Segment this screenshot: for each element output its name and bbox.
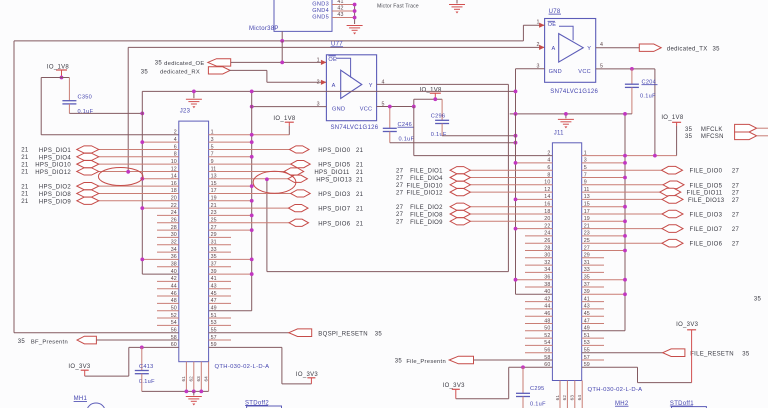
flag FILE_DIO10 to J11 pin 10 [396, 181, 552, 189]
svg-text:40: 40 [171, 269, 177, 275]
capacitor C204 0.1uF [631, 69, 633, 84]
flag MFCLK [735, 124, 757, 132]
junction IO_1V8 stem [433, 97, 437, 101]
capacitor C350 0.1uF [68, 78, 70, 101]
Mictor pin names GND3 GND4 GND5 [312, 2, 329, 21]
wire J23 pin 19 to right ground bus [209, 200, 252, 202]
svg-text:J23: J23 [180, 108, 191, 114]
capacitor C295 0.1uF [521, 365, 525, 369]
svg-text:64: 64 [203, 376, 208, 382]
svg-text:HPS_DIO6: HPS_DIO6 [318, 221, 350, 227]
wire J11 pin 23 to right ground bus [582, 235, 625, 237]
ground symbol on J23 ground rail [193, 91, 195, 98]
flag HPS_DIO1 to J23 pin 6 [21, 146, 179, 154]
svg-text:56: 56 [171, 328, 177, 334]
svg-text:OE: OE [548, 22, 557, 28]
wire GND pins to ground [354, 5, 356, 25]
svg-text:35: 35 [685, 134, 693, 140]
ground below J23 mounting pins [193, 391, 195, 395]
svg-text:21: 21 [21, 192, 29, 198]
wire J11 right ground bus [624, 114, 626, 331]
svg-text:FILE_DIO6: FILE_DIO6 [690, 242, 723, 248]
svg-text:0.1uF: 0.1uF [530, 402, 546, 408]
wire C246 ground return [390, 142, 516, 144]
svg-text:File_Presentn: File_Presentn [406, 359, 446, 365]
junction ground bus at U77 GND [250, 105, 254, 109]
svg-text:0.1uF: 0.1uF [431, 132, 447, 138]
wire J23 pin 59 to IO_3V3 [209, 346, 282, 348]
power symbol IO_1V8 at U77 VCC [430, 92, 441, 94]
svg-text:A: A [552, 46, 556, 52]
svg-text:C413: C413 [139, 364, 154, 370]
svg-text:35: 35 [395, 359, 403, 365]
flag HPS_DIO13 from J23 pin 13 [209, 175, 364, 183]
junction ground rail at J23 left bus [192, 90, 196, 94]
svg-text:VCC: VCC [360, 106, 373, 112]
wire C413 to mounting pin ground [142, 390, 209, 392]
flag HPS_DIO6 from J23 pin 25 [209, 219, 364, 227]
svg-text:HPS_DIO13: HPS_DIO13 [316, 177, 352, 183]
connector J23 mounting pins 61-64 [181, 362, 208, 392]
flag HPS_DIO7 from J23 pin 21 [209, 205, 364, 213]
svg-text:27: 27 [396, 220, 404, 226]
connector J11 mounting pins 61-64 [555, 381, 582, 408]
wire OE rail drop to dedicated_OE wire [281, 41, 283, 63]
svg-text:43: 43 [337, 12, 343, 18]
svg-text:FILE_DIO9: FILE_DIO9 [410, 220, 443, 226]
svg-text:FILE_DIO0: FILE_DIO0 [690, 169, 723, 175]
standoff STDoff1 [670, 401, 707, 408]
connector J11 pin wires and pin numbers [544, 150, 589, 368]
J11 unconnected left pin stubs [525, 236, 552, 353]
wire J11 pin 27 to right ground bus [582, 250, 625, 252]
svg-text:27: 27 [396, 190, 404, 196]
svg-text:21: 21 [356, 170, 364, 176]
svg-text:4: 4 [600, 42, 603, 48]
svg-text:OE: OE [328, 57, 337, 63]
svg-text:41: 41 [337, 0, 343, 5]
flag FILE_DIO0 from J11 pin 5 [582, 166, 740, 174]
wire J23 pin 23 to right ground bus [209, 214, 252, 216]
capacitor C246 0.1uF [389, 107, 391, 129]
flag HPS_DIO0 from J23 pin 5 [209, 146, 364, 154]
J11 unconnected right pin stubs [582, 258, 604, 360]
svg-text:HPS_DIO9: HPS_DIO9 [39, 199, 71, 205]
op-amp buffer U78 SN74LVC1G126 [545, 19, 596, 83]
svg-text:FILE_DIO13: FILE_DIO13 [688, 198, 725, 204]
svg-text:VCC: VCC [578, 69, 591, 75]
svg-text:27: 27 [732, 242, 740, 248]
wire U77 GND pin 3 to ground bus [252, 106, 327, 108]
svg-text:IO_3V3: IO_3V3 [443, 383, 466, 389]
flag HPS_DIO3 from J23 pin 17 [209, 190, 364, 198]
Mictor pin 42 wire [332, 10, 355, 12]
svg-text:0.1uF: 0.1uF [640, 93, 656, 99]
wire J11 pin 19 to right ground bus [582, 220, 625, 222]
wire J23 pin 4 to ground bus [142, 141, 179, 143]
svg-text:HPS_DIO4: HPS_DIO4 [39, 155, 71, 161]
wire dedicated_RX to U77 A pin [229, 69, 267, 71]
svg-text:2: 2 [537, 42, 540, 48]
power symbol IO_3V3 right of J11 [687, 329, 696, 331]
junction C204 tap [630, 67, 634, 71]
junction Mictor pin 41 [353, 3, 357, 7]
flag FILE_DIO3 from J11 pin 17 [582, 210, 740, 218]
wire ground rail above J11 [510, 113, 632, 115]
junction U77 VCC corner [412, 105, 416, 109]
svg-text:Mictor Fast Trace: Mictor Fast Trace [377, 4, 419, 10]
flag BQSPI_RESETN from J23 pin 55 [209, 329, 383, 337]
svg-text:21: 21 [21, 148, 29, 154]
flag HPS_DIO8 to J23 pin 18 [21, 190, 179, 198]
svg-text:61: 61 [181, 376, 186, 382]
junction right bus top [250, 90, 254, 94]
flag FILE_DIO6 from J11 pin 25 [582, 239, 740, 247]
wire J23 pin 15 to right ground bus [209, 185, 252, 187]
flag HPS_DIO12 to J23 pin 12 [21, 168, 179, 176]
flag FILE_DIO8 to J11 pin 18 [396, 210, 552, 218]
group ellipse J23 left (HPS bus tap) [98, 168, 143, 186]
wire J23 pin 36 to ground bus [142, 258, 179, 260]
power symbol IO_1V8 top left [56, 69, 67, 71]
svg-text:64: 64 [577, 395, 582, 401]
svg-text:GND4: GND4 [312, 8, 329, 14]
flag HPS_DIO4 to J23 pin 8 [21, 153, 179, 161]
svg-text:GND: GND [332, 106, 345, 112]
svg-text:35: 35 [685, 127, 693, 133]
svg-text:40: 40 [544, 289, 550, 295]
svg-text:21: 21 [21, 162, 29, 168]
wire U77 Y output [377, 83, 509, 85]
flag HPS_DIO5 from J23 pin 9 [209, 161, 364, 169]
wire dedicated_OE to U77 OE pin [231, 61, 327, 63]
connector J23 body [179, 121, 209, 362]
flag FILE_DIO4 to J11 pin 8 [396, 174, 552, 182]
svg-text:27: 27 [732, 191, 740, 197]
svg-text:BF_Presentn: BF_Presentn [31, 339, 68, 345]
svg-text:27: 27 [396, 176, 404, 182]
wire J23 pin 27 to right ground bus [209, 229, 252, 231]
svg-text:62: 62 [562, 395, 567, 401]
flag FILE_DIO2 to J11 pin 16 [396, 203, 552, 211]
wire ground rail above J23 [142, 90, 515, 92]
junction C350 return at J23 ground bus [140, 112, 144, 116]
wire OE net top rail [14, 40, 523, 42]
svg-text:35: 35 [375, 331, 383, 337]
svg-text:C350: C350 [78, 95, 93, 101]
power symbol IO_1V8 at J11 pin 1 [672, 121, 681, 123]
svg-text:IO_1V8: IO_1V8 [273, 116, 296, 122]
wire J23 right ground bus [251, 91, 253, 310]
svg-text:IO_1V8: IO_1V8 [420, 87, 443, 93]
svg-text:21: 21 [356, 163, 364, 169]
junction U78 GND at J23 ground rail [514, 90, 518, 94]
svg-text:HPS_DIO0: HPS_DIO0 [318, 148, 350, 154]
svg-text:21: 21 [21, 170, 29, 176]
svg-text:J11: J11 [554, 131, 564, 137]
svg-text:C296: C296 [431, 114, 446, 120]
svg-text:27: 27 [396, 212, 404, 218]
flag HPS_DIO9 to J23 pin 20 [21, 197, 179, 205]
wire rail to left ellipse group [127, 47, 129, 171]
svg-text:35: 35 [141, 69, 149, 75]
flag FILE_RESETN from J11 pin 55 [582, 349, 750, 357]
group ellipse J23 right (HPS bus tap) [253, 171, 296, 193]
op-amp buffer U77 SN74LVC1G126 [326, 55, 376, 121]
svg-text:2: 2 [317, 80, 320, 86]
wire U77 VCC net to J11 pin 2 [413, 107, 415, 156]
svg-text:21: 21 [356, 207, 364, 213]
svg-text:FILE_DIO1: FILE_DIO1 [410, 169, 443, 175]
svg-text:42: 42 [337, 6, 343, 12]
svg-text:21: 21 [356, 148, 364, 154]
svg-text:MFCLK: MFCLK [701, 127, 723, 133]
junction ellipse left on pin 12 row [126, 170, 130, 174]
svg-text:dedicated_TX: dedicated_TX [667, 46, 708, 52]
flag HPS_DIO10 to J23 pin 10 [21, 161, 179, 169]
svg-text:0.1uF: 0.1uF [399, 137, 415, 143]
flag dedicated_TX from U78 Y pin 4 [596, 44, 720, 52]
svg-text:1: 1 [317, 57, 320, 63]
junction ellipse right on pin 13 row [265, 177, 269, 181]
power symbol IO_1V8 at J23 pin 1 [285, 121, 294, 123]
junction dedicated_OE wire [280, 61, 284, 65]
svg-text:21: 21 [21, 199, 29, 205]
svg-text:27: 27 [732, 169, 740, 175]
ground top right [456, 0, 458, 4]
wire J11 pin 14 to ground bus [516, 198, 553, 200]
flag MFCSN [735, 132, 757, 140]
wire OE rail to U78 pin 1 [522, 25, 524, 41]
wire J23 left ground bus [141, 91, 143, 274]
flag FILE_DIO12 to J11 pin 12 [396, 189, 552, 197]
capacitor C296 0.1uF [441, 99, 443, 120]
wire J23 pin 60 to C413 and IO_3V3 [129, 346, 179, 348]
svg-text:21: 21 [356, 192, 364, 198]
svg-text:27: 27 [396, 183, 404, 189]
svg-text:21: 21 [21, 184, 29, 190]
flag dedicated_OE [208, 59, 231, 66]
power symbol IO_3V3 below J23 [307, 377, 315, 379]
flag HPS_DIO11 from J23 pin 11 [209, 168, 364, 176]
svg-text:IO_1V8: IO_1V8 [661, 115, 684, 121]
wire J11 pin 60 to C295 and IO_3V3 [509, 366, 553, 368]
wire J11 pin 3 to right ground bus [582, 162, 625, 164]
svg-text:QTH-030-02-L-D-A: QTH-030-02-L-D-A [215, 364, 270, 370]
wire J11 pin 35 to right ground bus [582, 279, 625, 281]
svg-text:FILE_DIO10: FILE_DIO10 [406, 183, 443, 189]
svg-text:35: 35 [713, 46, 721, 52]
svg-text:27: 27 [732, 213, 740, 219]
svg-text:IO_3V3: IO_3V3 [68, 364, 91, 370]
svg-text:MFCSN: MFCSN [701, 134, 724, 140]
svg-text:FILE_DIO11: FILE_DIO11 [687, 191, 723, 197]
svg-text:HPS_DIO1: HPS_DIO1 [39, 148, 71, 154]
wire J23 pin 14 to ground bus [142, 178, 179, 180]
svg-text:HPS_DIO5: HPS_DIO5 [318, 163, 350, 169]
ground symbol on J11 ground rail [565, 114, 567, 119]
Mictor pin 41 wire [332, 4, 355, 6]
Mictor bottom pin stub wire [281, 31, 283, 41]
connector Mictor38P body (clipped at top) [274, 0, 332, 31]
junction Mictor pin 43 [353, 16, 357, 20]
svg-text:HPS_DIO2: HPS_DIO2 [39, 185, 71, 191]
svg-text:35: 35 [155, 61, 163, 67]
wire J23 pin 7 to right ground bus [209, 156, 252, 158]
svg-text:C295: C295 [530, 386, 545, 392]
svg-text:QTH-030-02-L-D-A: QTH-030-02-L-D-A [588, 387, 643, 393]
svg-text:FILE_DIO3: FILE_DIO3 [690, 213, 723, 219]
J23 unconnected left pin stubs [157, 215, 179, 325]
wire J11 pin 39 to right ground bus [582, 293, 625, 295]
junction right bus at rail [623, 112, 627, 116]
svg-text:49: 49 [211, 306, 217, 312]
svg-text:61: 61 [555, 395, 560, 401]
svg-text:27: 27 [732, 198, 740, 204]
svg-text:IO_3V3: IO_3V3 [676, 322, 699, 328]
svg-text:49: 49 [584, 326, 590, 332]
wire J11 pin 22 to ground bus [516, 228, 553, 230]
svg-text:A: A [332, 83, 336, 89]
svg-text:63: 63 [196, 376, 201, 382]
svg-text:35: 35 [742, 351, 750, 357]
svg-text:SN74LVC1G126: SN74LVC1G126 [331, 125, 379, 131]
svg-text:GND5: GND5 [312, 15, 329, 21]
J23 unconnected right pin stubs [209, 237, 231, 340]
wire J11 pin 36 to ground bus [516, 279, 553, 281]
svg-text:27: 27 [732, 183, 740, 189]
svg-text:Y: Y [369, 83, 373, 89]
power symbol IO_3V3 below J11 [452, 388, 460, 390]
wire IO_1V8 to C350 and J23 pin 2 [41, 77, 69, 79]
svg-text:dedicated_RX: dedicated_RX [160, 70, 200, 76]
power symbol IO_3V3 bottom left [81, 369, 89, 371]
junction Mictor pin 42 [353, 9, 357, 13]
junction OE rail to Mictor stub [280, 39, 284, 43]
wire C296 ground return [442, 135, 515, 137]
ground below Mictor GND pins [347, 26, 363, 35]
flag FILE_DIO13 from J11 pin 13 [582, 196, 740, 204]
flag dedicated_RX [208, 67, 230, 74]
svg-text:FILE_DIO4: FILE_DIO4 [410, 176, 443, 182]
flag FILE_DIO7 from J11 pin 21 [582, 225, 740, 233]
svg-text:IO_3V3: IO_3V3 [296, 372, 319, 378]
svg-text:HPS_DIO3: HPS_DIO3 [318, 192, 350, 198]
mounting hole MH2 [615, 401, 629, 407]
wire J11 pin 15 to right ground bus [582, 206, 625, 208]
wire J23 pin 22 to ground bus [142, 207, 179, 209]
svg-text:27: 27 [396, 205, 404, 211]
wire J11 pin 1 to right ground bus [582, 155, 677, 157]
svg-text:35: 35 [754, 297, 762, 303]
wire U78 GND pin 3 [516, 68, 545, 70]
junction mounting pins [185, 390, 189, 394]
svg-text:FILE_DIO5: FILE_DIO5 [690, 183, 723, 189]
wire J23 pin 35 to right ground bus [209, 258, 252, 260]
wire J11 pin 4 to ground bus [516, 162, 553, 164]
svg-text:35: 35 [18, 339, 26, 345]
svg-text:GND3: GND3 [312, 2, 329, 8]
svg-text:HPS_DIO8: HPS_DIO8 [39, 192, 71, 198]
svg-text:Mictor38P: Mictor38P [249, 26, 279, 32]
connector J23 pin wires and pin numbers [171, 130, 217, 349]
Mictor pin 43 wire [332, 17, 355, 19]
junction C246 return at J11 ground bus [514, 141, 518, 145]
wire J23 pin 3 to right ground bus [209, 141, 252, 143]
svg-text:FILE_DIO8: FILE_DIO8 [410, 213, 443, 219]
junction C296 return at J11 ground bus [514, 134, 518, 138]
svg-text:IO_1V8: IO_1V8 [47, 64, 70, 70]
wire C350 ground return [69, 112, 142, 114]
svg-text:62: 62 [189, 376, 194, 382]
svg-text:21: 21 [21, 155, 29, 161]
svg-text:HPS_DIO11: HPS_DIO11 [314, 170, 350, 176]
wire U78 A input rail [128, 46, 544, 48]
connector J11 body [552, 143, 581, 381]
svg-text:21: 21 [356, 177, 364, 183]
wire J11 left ground bus [515, 114, 517, 294]
wire J11 pin 59 to IO_3V3 [582, 366, 638, 368]
junction IO_1V8 left [60, 76, 64, 80]
junction ground rail left [514, 112, 518, 116]
svg-text:FILE_DIO7: FILE_DIO7 [690, 227, 723, 233]
wire J11 pin 7 to right ground bus [582, 177, 625, 179]
capacitor C413 0.1uF [140, 345, 144, 349]
svg-text:SN74LVC1G126: SN74LVC1G126 [550, 89, 598, 95]
flag HPS_DIO2 to J23 pin 16 [21, 183, 179, 191]
flag FILE_DIO1 to J11 pin 6 [396, 167, 552, 175]
svg-text:HPS_DIO12: HPS_DIO12 [35, 170, 71, 176]
wire U78 VCC pin 5 [596, 68, 655, 70]
svg-text:27: 27 [732, 227, 740, 233]
flag File_Presentn to J11 pin 58 [395, 356, 553, 365]
svg-text:BQSPI_RESETN: BQSPI_RESETN [318, 331, 368, 337]
mounting hole MH1 [74, 396, 105, 408]
wire left border to J23 pin 56 [13, 41, 15, 333]
wire U77 Y to J23 right ellipse group [267, 271, 509, 273]
wire J23 pin 39 to right ground bus [209, 273, 252, 275]
svg-text:21: 21 [356, 221, 364, 227]
svg-text:FILE_DIO2: FILE_DIO2 [410, 205, 443, 211]
svg-text:GND: GND [549, 69, 562, 75]
flag FILE_DIO9 to J11 pin 20 [396, 218, 552, 226]
svg-text:FILE_RESETN: FILE_RESETN [690, 351, 734, 357]
wire U77 VCC pin 5 [377, 106, 414, 108]
flag FILE_DIO5 from J11 pin 9 [582, 181, 740, 189]
svg-text:dedicated_OE: dedicated_OE [164, 61, 204, 67]
svg-text:63: 63 [570, 395, 575, 401]
svg-text:27: 27 [396, 168, 404, 174]
svg-text:HPS_DIO7: HPS_DIO7 [318, 207, 350, 213]
wire J23 pin 1 to right ground bus [209, 134, 290, 136]
standoff STDoff2 [245, 400, 282, 408]
flag FILE_DIO11 from J11 pin 11 [582, 188, 740, 196]
svg-text:2: 2 [174, 130, 177, 136]
svg-text:Y: Y [587, 46, 591, 52]
svg-text:HPS_DIO10: HPS_DIO10 [35, 163, 71, 169]
flag BF_Presentn to J23 pin 58 [18, 336, 179, 345]
svg-text:FILE_DIO12: FILE_DIO12 [406, 191, 443, 197]
